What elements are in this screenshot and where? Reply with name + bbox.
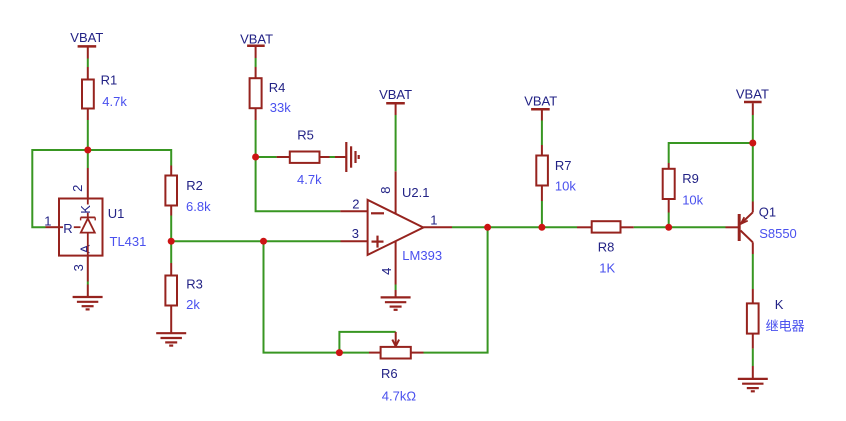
pin stub R5 right — [320, 156, 330, 158]
wire VBAT to R4 — [255, 58, 257, 67]
wire R2 to node B — [170, 216, 172, 242]
wire node E to R7 node — [488, 226, 542, 228]
resistor R3 — [165, 276, 203, 313]
wire node H up to R9 — [668, 213, 670, 228]
power VBAT net label 1 — [70, 30, 103, 58]
svg-text:1: 1 — [430, 213, 437, 228]
transistor Q1 S8550 — [739, 202, 797, 255]
svg-text:1: 1 — [44, 213, 51, 228]
svg-text:R8: R8 — [598, 240, 615, 255]
svg-text:S8550: S8550 — [759, 226, 797, 241]
svg-text:10k: 10k — [682, 193, 703, 208]
svg-text:R4: R4 — [269, 80, 286, 95]
wire feedback loop left to U1 pin 1 — [32, 150, 88, 227]
junction node G — [538, 224, 545, 231]
svg-text:3: 3 — [71, 264, 86, 271]
pin 2 stub U2 — [340, 210, 367, 212]
pin stub R9 bottom — [668, 199, 670, 213]
svg-text:4.7kΩ: 4.7kΩ — [382, 388, 417, 403]
wire speck pin3 — [87, 282, 89, 285]
wire R7 to node G — [541, 201, 543, 227]
svg-text:6.8k: 6.8k — [186, 199, 211, 214]
svg-text:2: 2 — [352, 197, 359, 212]
svg-text:TL431: TL431 — [110, 234, 147, 249]
junction node C — [252, 154, 259, 161]
pin stub R8 right — [621, 226, 634, 228]
junction node D — [260, 238, 267, 245]
pin stub R4 bottom — [255, 108, 257, 120]
svg-text:R6: R6 — [381, 366, 398, 381]
svg-text:VBAT: VBAT — [736, 86, 769, 101]
potentiometer R6 — [381, 347, 417, 404]
pin stub R5 left — [277, 156, 290, 158]
pin stub K top — [752, 289, 754, 303]
svg-text:10k: 10k — [555, 179, 576, 194]
wire node H to Q1 base — [669, 226, 726, 228]
pin 3 stub U2 — [341, 240, 368, 242]
svg-text:K: K — [78, 205, 93, 214]
power VBAT net label 4 — [524, 94, 557, 121]
junction node A — [84, 147, 91, 154]
pin stub R1 bottom — [87, 109, 89, 121]
wire node B to R3 — [170, 241, 172, 263]
svg-text:33k: 33k — [270, 100, 291, 115]
svg-text:VBAT: VBAT — [524, 94, 557, 109]
svg-text:U2.1: U2.1 — [402, 185, 429, 200]
svg-text:3: 3 — [352, 226, 359, 241]
pin stub R6 left — [369, 352, 381, 354]
svg-text:8: 8 — [378, 187, 393, 194]
pin 2 stub U1 — [87, 168, 89, 199]
svg-text:R3: R3 — [186, 276, 203, 291]
pin stub Q1 base — [726, 226, 739, 228]
svg-text:R2: R2 — [186, 178, 203, 193]
wire node D down to bottom run — [264, 241, 340, 352]
relay coil K — [747, 297, 805, 333]
svg-text:2: 2 — [70, 185, 85, 192]
ground under relay K — [738, 379, 768, 391]
power VBAT net label 3 — [379, 87, 412, 115]
wire node C to R5 — [256, 156, 277, 158]
resistor R8 — [592, 221, 621, 275]
pin 4 stub lower — [395, 290, 397, 297]
wire wiper branch — [339, 332, 395, 353]
wire VBAT to R1 — [87, 59, 89, 68]
wire VBAT to pin 8 — [395, 115, 397, 171]
svg-text:1K: 1K — [599, 260, 615, 275]
wire R8 to node H — [634, 226, 669, 228]
svg-text:VBAT: VBAT — [240, 31, 273, 46]
wire node G to R8 — [542, 226, 577, 228]
svg-text:4.7k: 4.7k — [297, 172, 322, 187]
wire node B to pin3 run — [171, 240, 263, 242]
resistor R9 — [663, 169, 704, 208]
pin 1 stub U1 — [46, 226, 60, 228]
svg-text:LM393: LM393 — [402, 248, 442, 263]
pin stub R6 right — [411, 352, 424, 354]
wire R9 top to VBAT node — [669, 143, 753, 163]
ground stub right of R5 — [335, 156, 346, 158]
wire node I to Q1 emitter — [752, 143, 754, 202]
pin 3 stub U1 lower — [87, 285, 89, 298]
wire VBAT to R7 — [541, 121, 543, 146]
power VBAT net label 2 — [240, 31, 273, 58]
pin stub R7 bottom — [541, 186, 543, 202]
svg-text:继电器: 继电器 — [766, 319, 805, 334]
wire node A to U1 pin 2 — [87, 150, 89, 168]
svg-text:Q1: Q1 — [759, 205, 776, 220]
wire K to ground — [752, 349, 754, 366]
junction node B — [168, 238, 175, 245]
junction node H — [665, 224, 672, 231]
svg-text:R9: R9 — [682, 171, 699, 186]
wire R1 to node A — [87, 120, 89, 150]
pin 1 stub U2 output — [423, 226, 452, 228]
wire pin3 run to U2 — [264, 240, 341, 242]
pin 8 stub U2 — [395, 171, 397, 214]
pin stub R1 top — [87, 67, 89, 80]
wire bottom run to R6 — [339, 352, 369, 354]
pin stub K bottom — [752, 334, 754, 349]
wire VBAT to node I — [752, 115, 754, 143]
svg-text:VBAT: VBAT — [70, 30, 103, 45]
wire output to node E — [452, 226, 488, 228]
wire node A to R2 — [88, 150, 171, 166]
pin stub R2 bottom — [170, 206, 172, 216]
ground stub bottom right — [752, 366, 754, 379]
ground under U1 — [73, 297, 103, 309]
resistor R1 — [82, 73, 127, 109]
svg-text:A: A — [78, 244, 93, 253]
ground under R3 — [156, 333, 186, 345]
wire speck pin 4 — [395, 285, 397, 291]
svg-text:4.7k: 4.7k — [102, 94, 127, 109]
junction node I — [749, 140, 756, 147]
pin stub R2 top — [170, 166, 172, 176]
svg-text:U1: U1 — [108, 206, 125, 221]
resistor R2 — [165, 176, 211, 215]
wire node E down to R6 right — [424, 227, 488, 352]
pin stub R7 top — [541, 145, 543, 156]
pin stub R9 top — [668, 163, 670, 169]
junction node F — [336, 349, 343, 356]
pin stub R8 left — [577, 226, 592, 228]
svg-text:R7: R7 — [555, 158, 572, 173]
op-amp U2.1 LM393 triangle — [368, 185, 442, 263]
resistor R5 — [290, 128, 322, 188]
op-amp U1 TL431 body — [59, 199, 146, 256]
svg-text:R5: R5 — [297, 128, 314, 143]
resistor R7 — [536, 156, 576, 194]
power VBAT net label 5 — [736, 86, 769, 115]
ground under U2 pin 4 — [381, 297, 411, 309]
wire R4 to node C — [255, 120, 257, 157]
pin stub R3 top — [170, 263, 172, 276]
pin 4 stub U2 — [395, 242, 397, 285]
resistor R4 — [250, 78, 292, 115]
wire node C down to pin 2 run — [256, 157, 341, 211]
svg-text:R: R — [63, 221, 72, 236]
wire Q1 collector to relay K — [752, 254, 754, 289]
pin 3 stub U1 — [87, 256, 89, 282]
junction node E — [484, 224, 491, 231]
pin stub R4 top — [255, 67, 257, 78]
wire speck R5 to ground — [330, 156, 336, 158]
svg-text:2k: 2k — [186, 297, 200, 312]
svg-text:VBAT: VBAT — [379, 87, 412, 102]
svg-text:R1: R1 — [101, 73, 118, 88]
svg-text:K: K — [775, 297, 784, 312]
potentiometer R6 wiper arrow — [392, 332, 399, 346]
svg-text:4: 4 — [379, 268, 394, 275]
ground sideways right of R5 — [346, 142, 358, 172]
pin stub R3 bottom — [170, 306, 172, 334]
